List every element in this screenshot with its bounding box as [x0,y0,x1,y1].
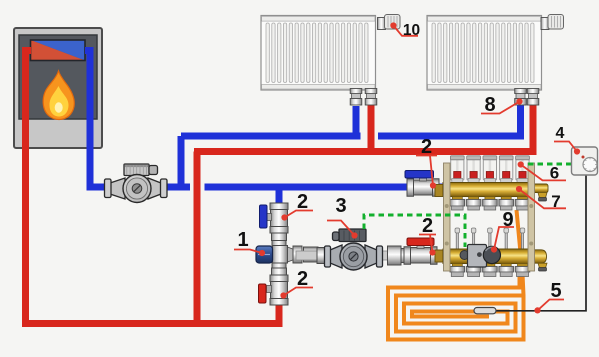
svg-text:5: 5 [550,280,561,302]
svg-text:2: 2 [422,215,433,237]
svg-text:3: 3 [335,195,346,217]
svg-text:8: 8 [484,94,495,116]
svg-text:7: 7 [551,192,560,211]
svg-text:6: 6 [550,164,559,183]
svg-text:4: 4 [556,125,565,142]
svg-text:2: 2 [421,136,432,158]
svg-text:9: 9 [502,209,513,231]
svg-text:10: 10 [403,22,420,39]
svg-text:2: 2 [297,191,308,213]
svg-text:1: 1 [237,229,248,251]
svg-text:2: 2 [297,268,308,290]
